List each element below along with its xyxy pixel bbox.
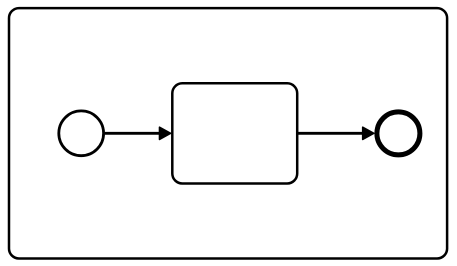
sequence flow 2 arrowhead [363, 127, 374, 139]
end event circle [377, 112, 420, 155]
task rounded rectangle [172, 83, 297, 183]
sequence flow 1 wire [105, 132, 161, 135]
sequence flow 2 wire [298, 132, 364, 135]
sequence flow 1 arrowhead [160, 127, 171, 139]
start event circle [59, 111, 104, 156]
